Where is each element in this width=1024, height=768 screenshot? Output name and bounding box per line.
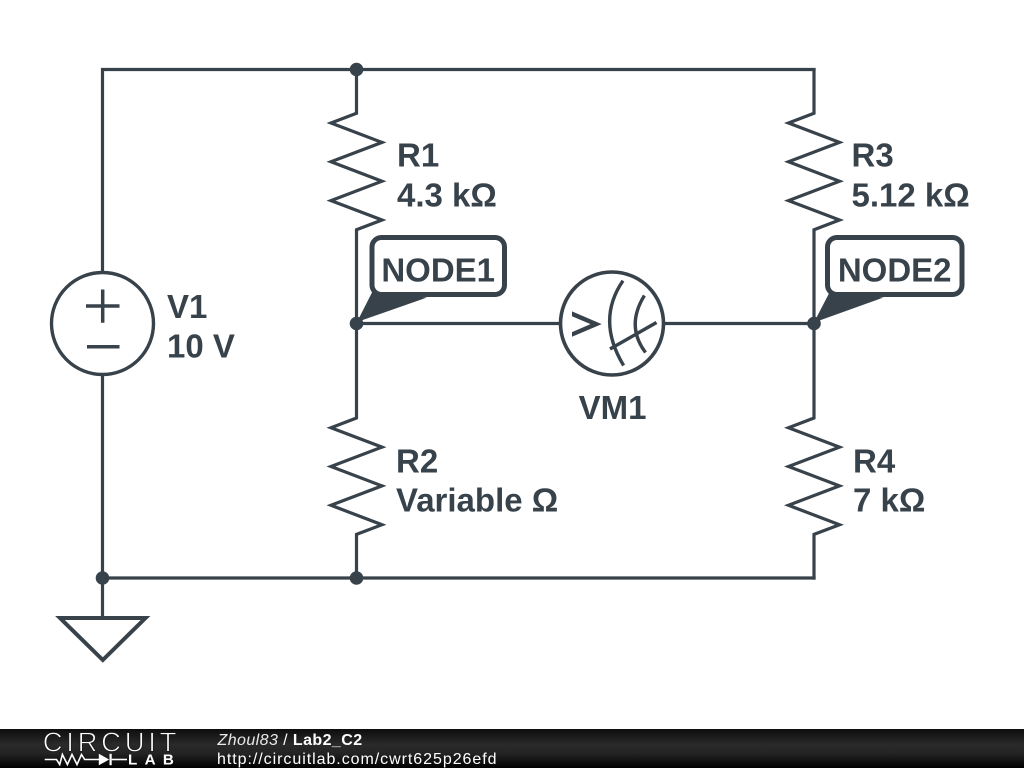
junction dot NODE2 — [807, 317, 821, 331]
svg-text:5.12 kΩ: 5.12 kΩ — [852, 176, 970, 213]
junction dot bottom left — [96, 571, 110, 585]
resistor R4 — [789, 324, 840, 580]
svg-text:7 kΩ: 7 kΩ — [853, 482, 925, 519]
ground symbol — [60, 618, 146, 660]
svg-text:Variable Ω: Variable Ω — [396, 482, 558, 519]
wire top rail — [101, 68, 816, 71]
V1 plus sign — [86, 290, 120, 323]
svg-text:R3: R3 — [852, 137, 894, 174]
svg-text:http://circuitlab.com/cwrt625p: http://circuitlab.com/cwrt625p26efd — [217, 751, 497, 768]
ground lead wire — [101, 578, 104, 618]
svg-text:V1: V1 — [167, 288, 207, 325]
wire voltmeter to NODE2 — [664, 322, 815, 325]
logo resistor-diode squiggle — [45, 754, 127, 765]
svg-text:LAB: LAB — [128, 752, 181, 768]
svg-text:VM1: VM1 — [579, 389, 647, 426]
resistor R2 — [331, 324, 382, 579]
footer bar — [0, 729, 1024, 768]
node NODE1 callout tail — [357, 292, 427, 323]
svg-text:R2: R2 — [396, 443, 438, 480]
svg-text:NODE1: NODE1 — [381, 251, 495, 288]
wire bottom rail — [103, 576, 816, 579]
svg-text:R4: R4 — [853, 443, 896, 480]
V1 minus sign — [87, 345, 120, 349]
svg-text:Zhoul83 / Lab2_C2: Zhoul83 / Lab2_C2 — [217, 732, 363, 749]
svg-text:NODE2: NODE2 — [838, 251, 952, 288]
voltage source V1 — [52, 273, 154, 375]
svg-text:4.3 kΩ: 4.3 kΩ — [397, 176, 497, 213]
wire left rail bottom (V1 bottom to bottom rail) — [101, 374, 104, 578]
voltmeter VM1 — [561, 272, 664, 375]
logo diode triangle — [99, 754, 109, 766]
resistor R1 — [331, 70, 382, 324]
wire NODE1 to voltmeter — [357, 322, 561, 325]
svg-text:10 V: 10 V — [167, 328, 235, 365]
junction dot NODE1 — [350, 317, 364, 331]
resistor R3 — [789, 68, 840, 324]
svg-text:R1: R1 — [397, 137, 439, 174]
wire left rail top (V1 top to top-left corner) — [101, 68, 104, 273]
node NODE2 bubble — [828, 238, 963, 295]
node NODE1 bubble — [372, 238, 505, 295]
junction dot bottom R2 — [350, 571, 364, 585]
node junction top (R1 to top rail) — [350, 63, 364, 77]
node NODE2 callout tail — [814, 292, 884, 323]
